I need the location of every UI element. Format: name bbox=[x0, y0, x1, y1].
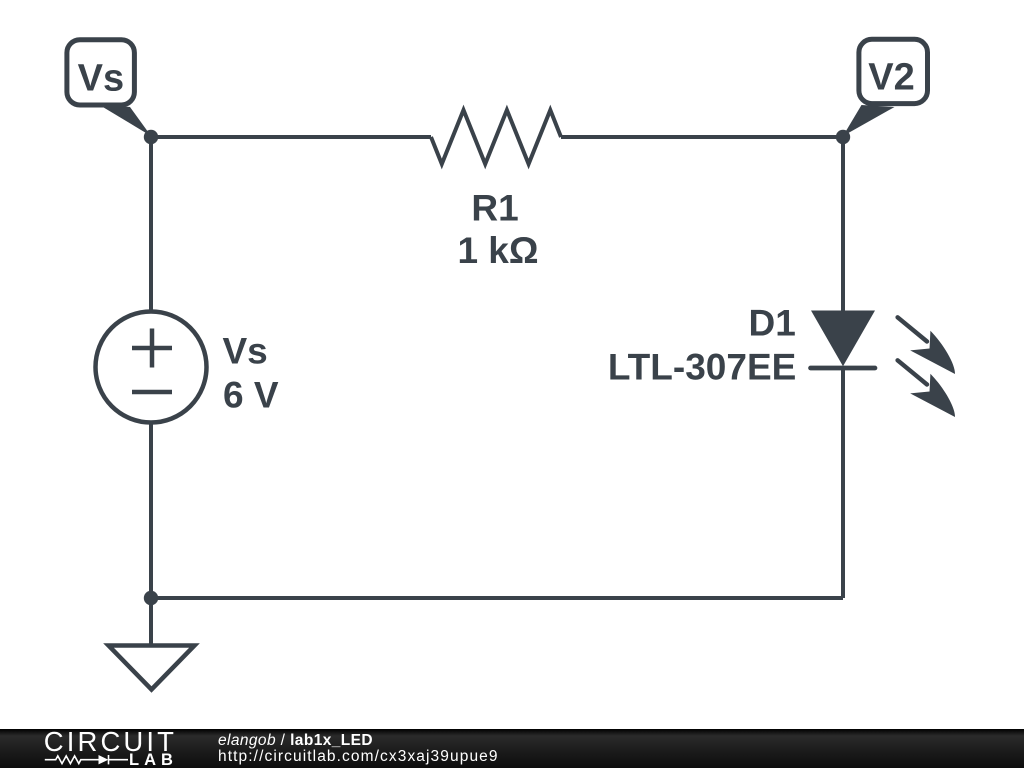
logo resistor-diode squiggle bbox=[45, 755, 128, 764]
footer title line bbox=[218, 733, 373, 749]
wire left rail lower bbox=[149, 423, 153, 598]
wire top right segment bbox=[561, 135, 843, 139]
CircuitLab logo bbox=[0, 729, 190, 768]
LED D1 cathode bar bbox=[811, 366, 876, 371]
wire top left segment bbox=[151, 135, 431, 139]
LED light arrow 2 bbox=[898, 360, 965, 427]
svg-text:6 V: 6 V bbox=[223, 375, 279, 416]
svg-text:1 kΩ: 1 kΩ bbox=[457, 230, 538, 271]
svg-text:R1: R1 bbox=[471, 188, 518, 229]
voltage source Vs circle bbox=[96, 312, 207, 423]
footer url line bbox=[218, 749, 499, 765]
footer bar bbox=[0, 729, 1024, 768]
wire left rail upper bbox=[149, 137, 153, 312]
wire ground stub bbox=[149, 598, 153, 645]
wire right rail upper bbox=[841, 137, 845, 312]
resistor R1 bbox=[431, 110, 561, 164]
node V2 dot bbox=[836, 130, 850, 144]
flag V2 bbox=[843, 39, 928, 136]
voltage source plus sign bbox=[132, 329, 172, 393]
LED light arrow 1 bbox=[898, 317, 965, 384]
svg-text:LTL-307EE: LTL-307EE bbox=[608, 347, 796, 388]
svg-text:V2: V2 bbox=[868, 57, 914, 99]
node ground dot bbox=[144, 591, 158, 605]
node Vs dot bbox=[144, 130, 158, 144]
svg-text:LAB: LAB bbox=[129, 751, 178, 768]
svg-text:Vs: Vs bbox=[223, 331, 268, 372]
wire right rail lower bbox=[841, 366, 845, 598]
svg-text:Vs: Vs bbox=[78, 57, 124, 99]
svg-text:D1: D1 bbox=[748, 302, 795, 343]
ground bbox=[109, 646, 195, 690]
voltage source minus sign bbox=[132, 390, 172, 395]
LED D1 triangle bbox=[811, 311, 875, 367]
wire bottom bbox=[151, 596, 843, 600]
flag Vs bbox=[67, 40, 151, 136]
